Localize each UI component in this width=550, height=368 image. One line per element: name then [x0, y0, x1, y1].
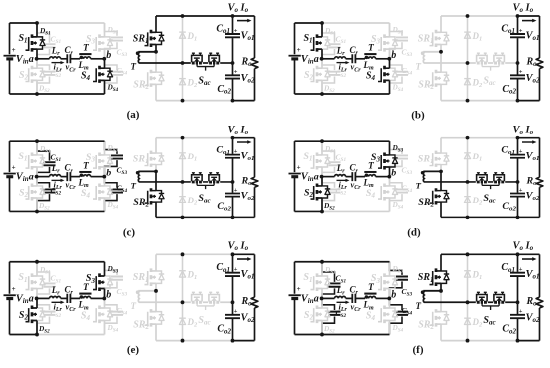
wire	[376, 58, 390, 60]
node junction	[231, 300, 235, 304]
wire	[295, 333, 390, 335]
wire	[467, 254, 469, 340]
label (f)	[413, 344, 424, 356]
node junction	[181, 300, 185, 304]
svg-text:+: +	[297, 46, 301, 54]
wire	[156, 100, 233, 102]
node b	[387, 168, 396, 179]
node b	[387, 50, 396, 61]
wire	[322, 176, 335, 178]
wire	[37, 297, 50, 299]
capacitor CS1	[322, 141, 346, 176]
label Vo2	[526, 191, 541, 202]
transformer T secondary	[131, 290, 156, 311]
wire	[10, 333, 38, 335]
svg-text:a: a	[29, 172, 34, 183]
node junction	[181, 99, 185, 103]
wire	[10, 140, 105, 142]
label Vo1	[241, 269, 255, 281]
wire	[295, 22, 323, 24]
wire	[295, 261, 390, 263]
inductor Lr	[335, 45, 346, 59]
panel (b) inverter bridge	[289, 21, 413, 96]
svg-text:a: a	[314, 172, 319, 183]
transformer T secondary	[131, 51, 157, 71]
transistor S3	[86, 262, 119, 299]
wire	[518, 16, 540, 101]
transformer T secondary	[416, 290, 442, 311]
wire	[376, 297, 390, 299]
node junction	[516, 61, 520, 65]
diode D1	[464, 151, 482, 162]
switch Sac	[477, 53, 505, 87]
svg-text:(f): (f)	[413, 344, 424, 356]
panel (b) rectifier	[416, 2, 543, 102]
node junction	[320, 210, 324, 214]
wire	[441, 137, 518, 139]
transistor S4	[366, 177, 404, 212]
transformer T secondary	[416, 171, 442, 190]
wire	[355, 176, 365, 178]
wire	[355, 297, 365, 299]
wire	[441, 216, 518, 218]
wire	[441, 100, 518, 102]
wire	[346, 58, 352, 60]
diode D1	[464, 269, 482, 281]
diode D2	[179, 195, 197, 206]
capacitor CS3	[390, 141, 413, 176]
wire	[441, 253, 518, 255]
wire	[322, 22, 390, 24]
wire	[295, 93, 390, 95]
diode D2	[179, 77, 198, 89]
node a	[314, 172, 324, 183]
node junction	[181, 216, 185, 220]
panel (d) rectifier	[416, 125, 543, 220]
node a	[29, 172, 39, 183]
label Vo1	[526, 30, 540, 42]
wire	[505, 181, 517, 183]
transistor S1	[303, 23, 336, 59]
capacitor CS2	[322, 59, 346, 94]
node junction	[181, 252, 185, 256]
capacitor CS2	[37, 177, 61, 212]
capacitor CS4	[390, 298, 413, 334]
transistor S2	[19, 59, 50, 94]
wire	[424, 181, 476, 183]
panel (a) rectifier	[131, 2, 258, 102]
node junction	[231, 180, 235, 184]
node junction	[181, 180, 185, 184]
svg-text:a: a	[29, 293, 34, 304]
node junction	[466, 180, 470, 184]
wire	[70, 58, 80, 60]
transformer T primary	[77, 162, 91, 190]
diode D1	[179, 269, 197, 281]
capacitor Co1	[216, 138, 240, 182]
wire	[203, 62, 208, 64]
node junction	[320, 260, 324, 264]
wire	[346, 297, 352, 299]
transformer T primary	[363, 282, 377, 311]
transistor S4	[81, 177, 119, 212]
node junction	[154, 289, 158, 293]
label (c)	[123, 226, 136, 238]
wire	[139, 62, 191, 64]
capacitor Co2	[217, 182, 240, 217]
diode D2	[464, 195, 482, 206]
svg-text:+: +	[519, 187, 523, 194]
node b	[102, 50, 111, 61]
transistor S1	[18, 262, 51, 299]
wire	[233, 254, 255, 340]
capacitor CS1	[322, 262, 346, 299]
capacitor Cr	[65, 163, 77, 191]
capacitor CS2	[322, 177, 346, 212]
transistor SR2	[133, 52, 164, 101]
label Vo1	[526, 269, 540, 281]
label Vo Io	[228, 2, 252, 22]
svg-text:+: +	[12, 164, 16, 172]
svg-text:+: +	[12, 46, 16, 54]
capacitor Co2	[217, 63, 240, 101]
resistor Ro	[241, 16, 258, 101]
capacitor Co1	[501, 138, 525, 182]
svg-text:+: +	[519, 69, 523, 76]
diode D2	[464, 77, 483, 89]
wire	[182, 138, 184, 218]
svg-text:+: +	[297, 164, 301, 172]
wire	[220, 301, 232, 303]
label iLr	[52, 61, 65, 73]
node junction	[35, 260, 39, 264]
source Vin	[289, 262, 314, 335]
capacitor CS1	[37, 23, 61, 59]
wire	[467, 138, 469, 218]
wire	[203, 181, 208, 183]
node junction	[181, 61, 185, 65]
wire	[488, 301, 493, 303]
capacitor CS4	[390, 177, 413, 212]
label Vo Io	[513, 125, 537, 144]
wire	[322, 297, 335, 299]
transistor S2	[19, 298, 50, 334]
inductor Lr	[335, 285, 346, 299]
svg-text:+: +	[519, 308, 523, 315]
node junction	[466, 252, 470, 256]
wire	[376, 176, 390, 178]
wire	[346, 176, 352, 178]
wire	[37, 22, 105, 24]
transistor S3	[371, 262, 404, 299]
transformer T primary	[363, 44, 377, 72]
node junction	[154, 170, 158, 174]
transistor SR1	[418, 16, 449, 52]
label Vo1	[241, 30, 255, 42]
transistor S4	[81, 298, 119, 334]
svg-text:T: T	[131, 62, 137, 72]
inductor Lr	[335, 163, 346, 176]
resistor Ro	[526, 254, 543, 340]
label Vo2	[241, 191, 256, 202]
wire	[139, 301, 191, 303]
wire	[505, 62, 517, 64]
wire	[182, 16, 184, 101]
node junction	[466, 216, 470, 220]
wire	[322, 58, 335, 60]
node junction	[35, 139, 39, 143]
wire	[156, 216, 233, 218]
svg-text:(c): (c)	[123, 226, 136, 238]
wire	[518, 138, 540, 218]
node junction	[466, 14, 470, 18]
wire	[139, 181, 191, 183]
panel (c) rectifier	[131, 125, 258, 220]
wire	[182, 254, 184, 340]
transistor S2	[304, 59, 335, 94]
node junction	[231, 99, 235, 103]
node b	[102, 289, 111, 300]
transistor S2	[19, 177, 50, 212]
wire	[424, 301, 476, 303]
node junction	[181, 14, 185, 18]
resistor Ro	[525, 138, 542, 218]
node junction	[154, 50, 158, 54]
panel (e) inverter bridge	[4, 260, 128, 337]
svg-text:T: T	[131, 301, 137, 311]
svg-text:+: +	[234, 187, 238, 194]
transformer T secondary	[131, 171, 157, 190]
svg-text:b: b	[391, 289, 396, 300]
wire	[488, 181, 493, 183]
svg-text:a: a	[314, 54, 319, 65]
svg-text:a: a	[29, 54, 34, 65]
switch Sac	[477, 292, 505, 326]
wire	[10, 210, 105, 212]
node junction	[466, 99, 470, 103]
resistor Ro	[241, 254, 258, 340]
node junction	[466, 136, 470, 140]
node junction	[439, 50, 443, 54]
label (e)	[127, 344, 140, 356]
capacitor CS3	[105, 141, 128, 176]
capacitor Co2	[217, 302, 240, 340]
transistor S4	[366, 298, 404, 334]
capacitor CS3	[105, 262, 128, 299]
node junction	[35, 210, 39, 214]
wire	[295, 210, 323, 212]
node junction	[320, 21, 324, 25]
svg-text:b: b	[391, 168, 396, 179]
wire	[91, 58, 105, 60]
capacitor CS4	[105, 59, 128, 94]
transistor S1	[303, 141, 336, 176]
transformer T primary	[78, 282, 92, 311]
transistor S1	[18, 23, 51, 59]
diode D1	[179, 151, 197, 162]
node junction	[181, 136, 185, 140]
resistor Ro	[526, 16, 543, 101]
svg-text:(a): (a)	[127, 109, 140, 121]
node junction	[439, 170, 443, 174]
wire	[61, 176, 67, 178]
capacitor Co1	[501, 254, 525, 302]
wire	[424, 62, 476, 64]
svg-text:b: b	[391, 50, 396, 61]
inductor Lr	[50, 45, 61, 59]
transistor S4	[81, 59, 119, 94]
node junction	[231, 339, 235, 343]
svg-text:+: +	[297, 285, 301, 293]
transistor SR1	[133, 16, 164, 52]
panel (f) rectifier	[416, 240, 543, 342]
transistor SR2	[418, 52, 449, 101]
label Vo Io	[513, 240, 537, 260]
wire	[488, 62, 493, 64]
node a	[314, 54, 324, 65]
node a	[29, 293, 39, 304]
node junction	[320, 92, 324, 96]
transistor S2	[304, 298, 335, 334]
capacitor Co1	[216, 16, 240, 63]
svg-text:b: b	[106, 289, 111, 300]
wire	[518, 254, 540, 340]
panel (e) rectifier	[131, 240, 258, 342]
label (d)	[407, 226, 421, 238]
node junction	[516, 339, 520, 343]
capacitor Cr	[350, 163, 362, 191]
transistor S3	[371, 141, 404, 176]
transistor S3	[86, 23, 119, 59]
transformer T primary	[78, 44, 92, 72]
wire	[156, 253, 233, 255]
wire	[467, 16, 469, 101]
node junction	[231, 252, 235, 256]
label Vo Io	[228, 125, 252, 144]
wire	[70, 297, 80, 299]
svg-text:+: +	[234, 148, 238, 155]
svg-text:T: T	[416, 301, 422, 311]
svg-text:b: b	[106, 168, 111, 179]
wire	[295, 140, 390, 142]
panel (a) inverter bridge	[4, 21, 128, 96]
transformer T primary	[362, 162, 376, 190]
wire	[70, 176, 80, 178]
capacitor CS2	[322, 298, 346, 334]
source Vin	[4, 23, 29, 94]
label iLr	[337, 301, 350, 314]
svg-text:a: a	[314, 293, 319, 304]
panel (f) inverter bridge	[289, 260, 413, 337]
svg-text:b: b	[106, 50, 111, 61]
label iLr	[337, 61, 350, 73]
label Vo Io	[228, 240, 252, 260]
wire	[220, 181, 232, 183]
svg-text:T: T	[416, 180, 422, 190]
node junction	[466, 61, 470, 65]
source Vin	[289, 141, 314, 211]
label Vo2	[241, 312, 255, 324]
capacitor Co2	[502, 302, 525, 340]
wire	[156, 15, 233, 17]
node a	[314, 293, 324, 304]
diode D2	[179, 317, 198, 329]
node junction	[516, 252, 520, 256]
svg-text:+: +	[234, 27, 238, 34]
node junction	[516, 14, 520, 18]
node junction	[231, 61, 235, 65]
svg-text:+: +	[519, 148, 523, 155]
label (a)	[127, 109, 140, 121]
svg-text:(d): (d)	[407, 226, 421, 238]
svg-text:+: +	[519, 266, 523, 273]
capacitor CS3	[105, 23, 128, 59]
node junction	[35, 21, 39, 25]
wire	[441, 15, 518, 17]
capacitor Cr	[65, 284, 77, 313]
wire	[156, 137, 233, 139]
svg-text:+: +	[234, 266, 238, 273]
diode D1	[464, 31, 482, 43]
wire	[156, 340, 233, 342]
node b	[102, 168, 111, 179]
label (b)	[411, 110, 425, 122]
svg-text:T: T	[416, 62, 422, 72]
wire	[441, 340, 518, 342]
transistor S1	[303, 262, 336, 299]
svg-text:+: +	[234, 69, 238, 76]
node junction	[231, 14, 235, 18]
transistor S3	[371, 23, 404, 59]
wire	[10, 93, 105, 95]
svg-text:(b): (b)	[411, 110, 425, 122]
panel (d) inverter bridge	[289, 139, 413, 213]
capacitor Co1	[216, 254, 240, 302]
inductor Lr	[50, 163, 61, 176]
wire	[10, 261, 105, 263]
wire	[91, 176, 105, 178]
transistor SR1	[133, 138, 164, 172]
label Vo2	[526, 73, 541, 85]
svg-text:+: +	[234, 308, 238, 315]
svg-text:(e): (e)	[127, 344, 140, 356]
source Vin	[4, 141, 29, 211]
transistor SR1	[418, 138, 449, 172]
capacitor Cr	[350, 284, 362, 313]
transistor S2	[304, 177, 335, 212]
transistor S3	[86, 141, 119, 176]
capacitor CS2	[37, 59, 61, 94]
transistor S1	[18, 141, 51, 176]
node junction	[516, 180, 520, 184]
wire	[233, 16, 255, 101]
node junction	[516, 136, 520, 140]
wire	[220, 62, 232, 64]
node junction	[516, 99, 520, 103]
label Vo1	[526, 151, 540, 162]
label iLr	[337, 179, 350, 191]
node a	[29, 54, 39, 65]
capacitor CS1	[37, 262, 61, 299]
node junction	[466, 300, 470, 304]
transistor SR2	[133, 291, 164, 341]
node junction	[516, 300, 520, 304]
svg-text:+: +	[12, 285, 16, 293]
wire	[37, 333, 105, 335]
source Vin	[4, 262, 29, 335]
resistor Ro	[240, 138, 257, 218]
capacitor CS1	[322, 23, 346, 59]
